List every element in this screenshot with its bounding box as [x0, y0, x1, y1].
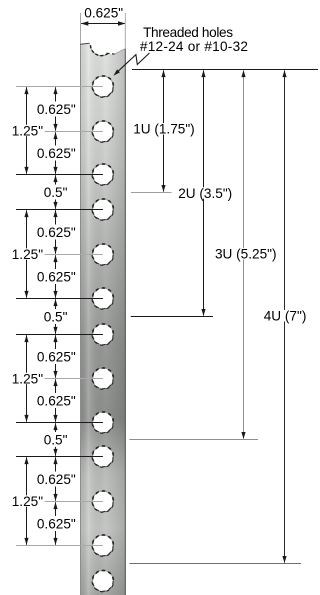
svg-text:0.625": 0.625"	[37, 225, 76, 240]
svg-text:0.625": 0.625"	[37, 146, 76, 161]
svg-text:0.5": 0.5"	[44, 432, 68, 447]
svg-text:0.5": 0.5"	[44, 309, 68, 324]
svg-text:1.25": 1.25"	[12, 494, 43, 509]
svg-text:0.625": 0.625"	[37, 349, 76, 364]
svg-text:0.625": 0.625"	[37, 102, 76, 117]
svg-text:1.25": 1.25"	[12, 371, 43, 386]
svg-text:0.625": 0.625"	[84, 6, 123, 21]
svg-text:0.5": 0.5"	[44, 185, 68, 200]
svg-text:2U (3.5"): 2U (3.5")	[178, 186, 232, 201]
svg-text:Threaded holes: Threaded holes	[143, 25, 233, 40]
svg-text:1U (1.75"): 1U (1.75")	[133, 122, 195, 137]
svg-text:1.25": 1.25"	[12, 247, 43, 262]
svg-text:1.25": 1.25"	[12, 123, 43, 138]
svg-text:0.625": 0.625"	[37, 269, 76, 284]
svg-text:0.625": 0.625"	[37, 472, 76, 487]
svg-text:3U (5.25"): 3U (5.25")	[215, 247, 277, 262]
svg-text:4U (7"): 4U (7")	[264, 309, 307, 324]
svg-text:0.625": 0.625"	[37, 516, 76, 531]
svg-text:0.625": 0.625"	[37, 393, 76, 408]
svg-text:#12-24 or #10-32: #12-24 or #10-32	[140, 39, 248, 54]
